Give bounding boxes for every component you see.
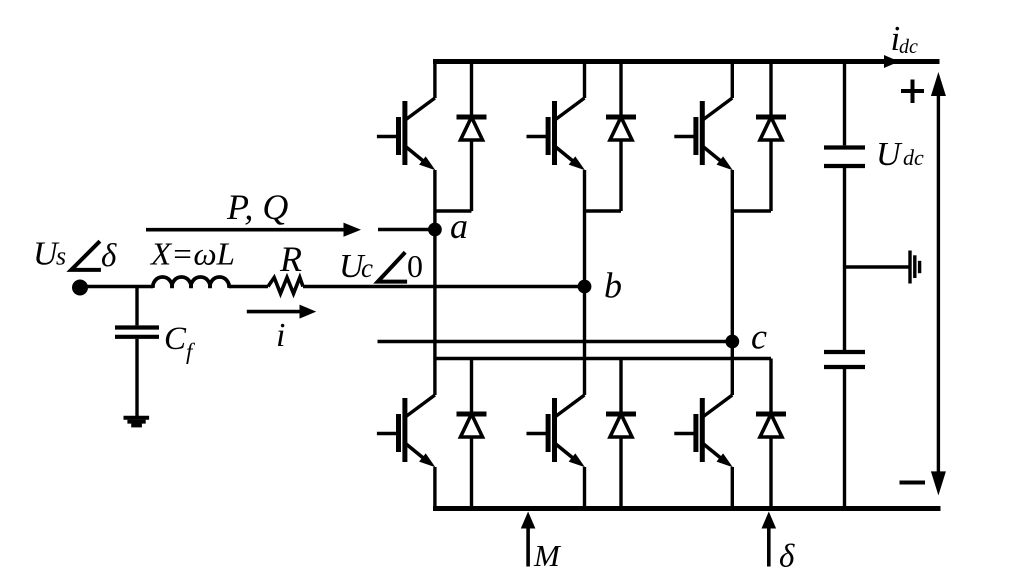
transistor bottom IGBT leg c	[674, 359, 733, 509]
svg-text:C: C	[164, 321, 187, 357]
label Us angle delta	[33, 236, 117, 274]
wire: DC cap branch upper	[843, 62, 846, 146]
svg-text:R: R	[279, 239, 302, 279]
ground (Cf)	[124, 418, 150, 426]
capacitor Cf	[115, 328, 159, 337]
arrow Udc measurement double-headed	[937, 94, 940, 474]
svg-text:dc: dc	[903, 145, 924, 170]
transistor bottom IGBT leg a	[377, 359, 436, 509]
svg-text:dc: dc	[899, 36, 918, 58]
capacitor DC upper	[824, 148, 865, 167]
wire: jog top leg b	[585, 209, 622, 212]
arrow i	[247, 310, 303, 314]
diode top leg b	[606, 62, 636, 212]
wire: DC cap branch lower	[843, 369, 846, 509]
capacitor DC lower	[824, 352, 865, 367]
wire: phase b vertical	[583, 211, 586, 359]
svg-text:P, Q: P, Q	[226, 187, 288, 227]
wire: DC midpoint to ground	[845, 265, 909, 268]
wire: phase a vertical	[433, 211, 436, 359]
transistor top IGBT leg a	[377, 62, 436, 212]
wire: jog top leg c	[732, 209, 771, 212]
wire: AC line from source to node b	[80, 285, 585, 288]
inductor X=wL	[153, 277, 229, 288]
diode bottom leg b	[606, 359, 636, 509]
wire: phase c vertical	[731, 211, 734, 359]
svg-text:c: c	[751, 317, 767, 357]
wire: phase-c line	[378, 340, 733, 343]
node c	[725, 335, 739, 349]
arrow delta	[767, 527, 771, 567]
transistor top IGBT leg c	[674, 62, 733, 212]
svg-text:M: M	[533, 538, 562, 573]
svg-text:X=ωL: X=ωL	[149, 236, 235, 272]
label Uc angle 0	[339, 248, 423, 285]
label minus	[900, 481, 926, 485]
node Us source terminal dot	[72, 280, 88, 296]
diode bottom leg c	[756, 359, 786, 509]
wire: Cf branch vertical	[135, 287, 138, 417]
arrow i_dc on top rail	[884, 55, 899, 68]
resistor R	[268, 278, 303, 294]
ground (DC midpoint, rotated)	[910, 251, 920, 284]
arrow M	[526, 527, 530, 567]
svg-text:i: i	[276, 317, 285, 354]
wire: top DC rail	[433, 59, 940, 64]
node a	[428, 223, 442, 237]
transistor bottom IGBT leg b	[527, 359, 586, 509]
svg-text:U: U	[876, 136, 903, 173]
node b	[578, 280, 592, 294]
svg-text:b: b	[604, 266, 622, 306]
svg-text:δ: δ	[779, 539, 795, 575]
arrow P,Q	[146, 228, 347, 232]
svg-text:s: s	[56, 242, 66, 271]
transistor top IGBT leg b	[527, 62, 586, 212]
wire: bridge mid line	[435, 357, 771, 360]
wire: bottom DC rail	[433, 506, 941, 511]
svg-text:δ: δ	[101, 238, 117, 274]
wire: jog top leg a	[435, 209, 472, 212]
wire: phase-a stub	[378, 228, 435, 231]
diode top leg c	[756, 62, 786, 212]
svg-text:0: 0	[407, 248, 423, 284]
diode top leg a	[457, 62, 487, 212]
label plus	[901, 80, 924, 104]
svg-text:c: c	[361, 253, 373, 283]
wire: DC cap branch middle	[843, 168, 846, 350]
diode bottom leg a	[457, 359, 487, 509]
